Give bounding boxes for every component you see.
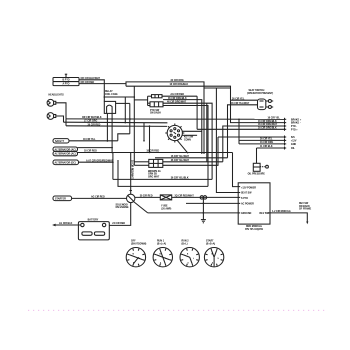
svg-text:ORG WHT: ORG WHT — [148, 176, 160, 178]
battery ground wire with arrow — [55, 224, 81, 226]
wire +12V line — [239, 139, 285, 141]
svg-text:18 CIR RED: 18 CIR RED — [146, 151, 159, 153]
wire alternator AC row1 — [78, 147, 113, 149]
svg-text:30 CIR RED: 30 CIR RED — [140, 196, 153, 198]
svg-text:HEADLIGHTS: HEADLIGHTS — [49, 94, 65, 97]
wire safety jog segment — [118, 134, 130, 141]
wire key switch right stub 2 — [182, 134, 197, 136]
wire bus 16 CIR ORG/BLK — [126, 86, 231, 100]
wire J1-B to bus — [79, 84, 126, 87]
svg-text:LT CIR ORG: LT CIR ORG — [84, 121, 97, 123]
wire J1-A to relay — [79, 80, 104, 102]
svg-text:OR CIR WHT/BLK: OR CIR WHT/BLK — [82, 117, 102, 119]
svg-text:3Q CIR RED/WHT: 3Q CIR RED/WHT — [175, 196, 195, 198]
svg-text:P/N 725-04Q27B: P/N 725-04Q27B — [245, 228, 263, 231]
wire PTO row2 out A — [206, 103, 208, 162]
wire riser x112.9 — [112, 153, 114, 180]
module pin GROUND — [238, 212, 240, 214]
svg-text:LG CIR BLK: LG CIR BLK — [59, 223, 73, 225]
svg-text:S/S: S/S — [291, 137, 295, 139]
svg-text:ON ENGINE: ON ENGINE — [116, 207, 130, 209]
svg-text:OF FRAME: OF FRAME — [299, 208, 312, 211]
svg-text:OFF: OFF — [131, 241, 136, 243]
module pin S PTO — [238, 196, 240, 198]
wire +12V from brake node — [238, 119, 240, 144]
inline connector on S PTO wire — [200, 196, 207, 199]
svg-text:26 CIR YEL: 26 CIR YEL — [232, 98, 245, 100]
junction dots x149.5 — [149, 125, 151, 127]
comb vertical v222 — [223, 126, 231, 162]
svg-text:B PTO: B PTO — [62, 80, 69, 82]
starter label box — [53, 196, 72, 201]
comb wire 36 CIR ORG/BLK — [163, 100, 202, 154]
svg-text:L: L — [166, 258, 167, 260]
junction dots on relay pins — [107, 118, 109, 120]
svg-text:16 CIR YEL: 16 CIR YEL — [268, 118, 281, 120]
wire S/S — [218, 136, 285, 138]
wire 18 CIR RED long (L1) — [78, 152, 233, 154]
pin end brake plus — [285, 118, 287, 121]
comb wire 4 CIR ORG/WHT — [163, 103, 212, 179]
wire seat area top — [204, 87, 231, 89]
wire L5 36 CIR YEL/BLK — [113, 178, 212, 180]
svg-text:1-2 CIR MODULE: 1-2 CIR MODULE — [272, 211, 291, 213]
svg-text:PTO +: PTO + — [291, 129, 298, 131]
wire into row2 lower — [148, 105, 150, 107]
svg-text:S PTO: S PTO — [241, 198, 248, 200]
svg-text:KEY SW: KEY SW — [184, 137, 194, 139]
svg-text:L: L — [193, 258, 194, 260]
wire L4 — [134, 164, 149, 166]
module pin SEAT SW — [238, 192, 240, 194]
svg-text:46 CIR YEL/WHT: 46 CIR YEL/WHT — [231, 102, 250, 105]
pin end +12V — [285, 139, 287, 142]
svg-text:24 CIR RED: 24 CIR RED — [112, 222, 125, 225]
wire PTO row1 out to comb — [162, 95, 197, 97]
headlight bulb 2 — [47, 113, 56, 120]
svg-text:46 CIR ORG/WHT: 46 CIR ORG/WHT — [258, 123, 278, 126]
svg-text:AC POWER: AC POWER — [241, 203, 254, 206]
wire alternator DC to L5 — [79, 161, 113, 163]
wire L3 right part — [163, 161, 223, 163]
svg-text:SEAT SWITCH: SEAT SWITCH — [249, 89, 265, 92]
safety module label box — [53, 139, 69, 143]
svg-text:BRAKE -: BRAKE - — [291, 122, 301, 125]
svg-text:RUN 1: RUN 1 — [157, 241, 165, 243]
seat switch contact 2 — [266, 106, 273, 109]
svg-text:SAFETY: SAFETY — [55, 140, 65, 143]
pin end OIL — [285, 147, 287, 150]
svg-text:16 CIR ORG/BLK: 16 CIR ORG/BLK — [258, 128, 277, 130]
wire long OR CIR WHT/BLK (brake+) — [66, 118, 285, 120]
wire GND line — [239, 143, 285, 145]
svg-text:(20 AMP): (20 AMP) — [161, 207, 171, 210]
wire PTO row1 feed — [148, 95, 152, 97]
solenoid stud — [127, 194, 135, 202]
svg-text:GROUND: GROUND — [241, 213, 252, 215]
svg-text:(B+S+A): (B+S+A) — [206, 242, 215, 245]
wire bulb1 to node — [56, 103, 66, 119]
solenoid diagonal — [134, 202, 148, 213]
svg-text:PTO SW: PTO SW — [150, 110, 160, 112]
wire LT CIR ORG to key switch — [64, 121, 168, 124]
ground symbol — [201, 220, 206, 223]
junction dots ground drop — [203, 203, 205, 205]
wire PTO row vertical — [147, 96, 149, 105]
svg-text:(B+L+A): (B+L+A) — [157, 242, 166, 245]
pin end pto minus — [285, 125, 287, 128]
svg-text:46 CIR ORG/WHT: 46 CIR ORG/WHT — [167, 100, 187, 103]
oil pressure switch — [253, 163, 260, 171]
ground arrow head — [52, 224, 56, 227]
wire riser at x125 — [124, 97, 126, 123]
junction dots safety — [143, 140, 145, 142]
wire pto minus line — [223, 125, 285, 127]
PTO switch connector row 1 — [152, 95, 163, 98]
PTO switch connector row 2 — [150, 102, 163, 107]
wire L1 end to module +12V — [233, 153, 239, 187]
wire 36 CIR RED to key switch — [66, 125, 167, 128]
svg-text:START: START — [206, 240, 214, 243]
svg-text:A AT CIR ORG/RED/WHT: A AT CIR ORG/RED/WHT — [86, 159, 114, 162]
svg-text:ALTERNATOR (AC): ALTERNATOR (AC) — [55, 153, 76, 156]
key position RUN2 circle — [180, 248, 199, 267]
svg-text:18 CIR RED: 18 CIR RED — [84, 151, 97, 153]
svg-text:AG CIR RED: AG CIR RED — [170, 93, 184, 96]
svg-text:ON DASH: ON DASH — [150, 112, 161, 115]
wire AC POWER line — [186, 202, 238, 204]
relay pin 1 wire — [106, 113, 108, 141]
wire L3 36 CIR YEL/WHT — [134, 161, 149, 163]
key position RUN1 circle — [153, 248, 172, 267]
wire relay tap y97 — [104, 96, 134, 98]
svg-text:36 CIR YEL/WHT: 36 CIR YEL/WHT — [171, 160, 190, 162]
inline connector block C2 — [149, 159, 163, 167]
oil switch contact — [260, 165, 268, 168]
svg-text:OIL PRESSURE: OIL PRESSURE — [248, 173, 266, 175]
svg-text:36 CIR ORG/BLK: 36 CIR ORG/BLK — [168, 98, 187, 100]
junction dot alt row1 — [111, 147, 113, 149]
solenoid tick — [130, 190, 132, 192]
key switch connector circle — [165, 124, 184, 143]
svg-text:32 CIR ORG: 32 CIR ORG — [171, 80, 184, 82]
wire L4 right part — [163, 137, 218, 165]
svg-text:36 CIR RED: 36 CIR RED — [88, 124, 101, 126]
solenoid vertical to L1 — [130, 153, 132, 194]
comb vertical v197 — [196, 96, 198, 129]
battery B1 — [78, 222, 109, 240]
wire starter to solenoid — [72, 197, 127, 199]
alternator DC label box — [53, 160, 79, 165]
wire oil switch drop — [256, 148, 258, 163]
relay K1 — [104, 101, 115, 113]
wire bus 32 CIR ORG — [126, 82, 204, 154]
wire REV SW out — [270, 213, 307, 222]
svg-text:BROWN 2A: BROWN 2A — [148, 170, 161, 173]
wire L2 16 CIR YEL/WHT — [155, 157, 228, 159]
wire brake minus from v230 — [231, 100, 285, 122]
svg-text:16 CIR YEL/WHT: 16 CIR YEL/WHT — [171, 156, 190, 158]
node on brake line — [65, 119, 67, 126]
svg-text:36 CIR YEL/BLK: 36 CIR YEL/BLK — [171, 178, 189, 180]
svg-text:A PTO: A PTO — [63, 83, 70, 86]
comb vertical v230 seat upper — [231, 99, 258, 101]
key position terminal letters — [133, 254, 220, 265]
wire key switch diagonal — [177, 140, 188, 153]
svg-text:18 CIR YEL: 18 CIR YEL — [83, 139, 96, 141]
svg-text:CONN: CONN — [184, 139, 191, 141]
wire fuse to module S PTO — [172, 196, 239, 198]
svg-text:RUN 2: RUN 2 — [182, 241, 190, 243]
svg-text:GRN 2B: GRN 2B — [148, 174, 157, 176]
comb vertical v216 to module seat sw — [216, 88, 238, 193]
wire L6 — [118, 160, 208, 186]
wire safety 18 CIR YEL — [69, 140, 118, 142]
svg-text:SEAT SW: SEAT SW — [241, 192, 252, 195]
svg-text:COIL CASE: COIL CASE — [105, 93, 118, 96]
key position OFF circle — [126, 248, 145, 267]
svg-text:(OPERATOR PRESENT): (OPERATOR PRESENT) — [247, 92, 273, 95]
wire PTO feed tee — [134, 99, 147, 101]
svg-text:16 CIR ORG/BLK: 16 CIR ORG/BLK — [170, 84, 189, 86]
key position START circle — [204, 248, 223, 267]
wire PTO row2 out B — [163, 106, 208, 187]
svg-text:(SHUTDOWN): (SHUTDOWN) — [131, 243, 146, 245]
svg-text:ALTERNATOR (DC): ALTERNATOR (DC) — [55, 161, 76, 164]
wire OIL line — [257, 147, 285, 149]
solenoid drop to battery — [109, 203, 130, 226]
pin end brake minus — [285, 121, 287, 124]
wire relay top link — [116, 102, 130, 104]
svg-text:PTO -: PTO - — [291, 126, 297, 128]
wire bulb2 to node — [56, 116, 64, 122]
wire pto plus line — [197, 128, 284, 130]
seat switch S2 — [258, 99, 266, 110]
svg-text:SOLENOID: SOLENOID — [116, 204, 128, 206]
ground drop from S PTO wire — [202, 197, 204, 219]
svg-text:ON BACK: ON BACK — [299, 205, 310, 208]
svg-text:REV SW: REV SW — [299, 203, 309, 205]
svg-text:+12V POWER: +12V POWER — [241, 187, 256, 189]
svg-text:(B+L): (B+L) — [182, 243, 188, 245]
svg-text:RMC MODULE: RMC MODULE — [246, 226, 262, 228]
fuse F1 — [160, 195, 171, 200]
svg-text:FUSE: FUSE — [161, 206, 168, 208]
rev arrow head — [306, 222, 308, 225]
connector J1 (PTO plug, two stacked cavities) — [53, 78, 79, 86]
wire cross link x149.5 — [149, 126, 151, 153]
wire riser right of relay — [129, 103, 131, 133]
wire GROUND line — [148, 212, 239, 214]
svg-text:16 CIR ORG: 16 CIR ORG — [260, 142, 273, 144]
svg-text:BRAKE +: BRAKE + — [291, 118, 302, 121]
wire bus drop to PTO switch — [133, 86, 135, 165]
antenna tick above J1 — [65, 74, 67, 77]
svg-text:OIL: OIL — [291, 148, 295, 150]
svg-text:26 CIR YEL: 26 CIR YEL — [260, 139, 273, 141]
seat switch contact 1 — [266, 100, 273, 103]
relay pin 2 wire — [111, 113, 113, 152]
svg-text:STARTER: STARTER — [55, 198, 66, 201]
svg-text:+12V: +12V — [291, 140, 297, 142]
module pin AC POWER — [238, 202, 240, 204]
junction dot v239 — [238, 119, 240, 121]
junction dots mesh — [104, 96, 106, 98]
pin end pto plus — [285, 128, 287, 131]
module box U1 — [238, 183, 270, 224]
wire into row2 — [148, 102, 150, 104]
module pin +12V POWER — [238, 186, 240, 188]
svg-text:11 CIR BLK: 11 CIR BLK — [260, 146, 273, 148]
wire key switch right stub 1 — [182, 130, 202, 132]
svg-text:AG CIR RED: AG CIR RED — [91, 195, 105, 198]
pin end GND — [285, 142, 287, 145]
svg-text:RELAY: RELAY — [105, 90, 113, 93]
alternator AC label box (2 rows) — [53, 147, 78, 156]
wire solenoid to fuse 30 CIR RED — [135, 196, 160, 198]
svg-text:16 CIR ORG/BLK: 16 CIR ORG/BLK — [258, 121, 277, 123]
svg-text:GND: GND — [291, 144, 296, 146]
wire cross link x144 — [143, 123, 145, 141]
svg-text:ALTERNATOR (AC): ALTERNATOR (AC) — [55, 148, 76, 151]
pin end S/S — [285, 136, 287, 139]
headlight bulb 1 — [47, 99, 56, 106]
perforation dotted line — [28, 310, 324, 311]
comb vertical v227 seat lower — [228, 105, 258, 158]
junction dot DC riser — [112, 161, 114, 163]
